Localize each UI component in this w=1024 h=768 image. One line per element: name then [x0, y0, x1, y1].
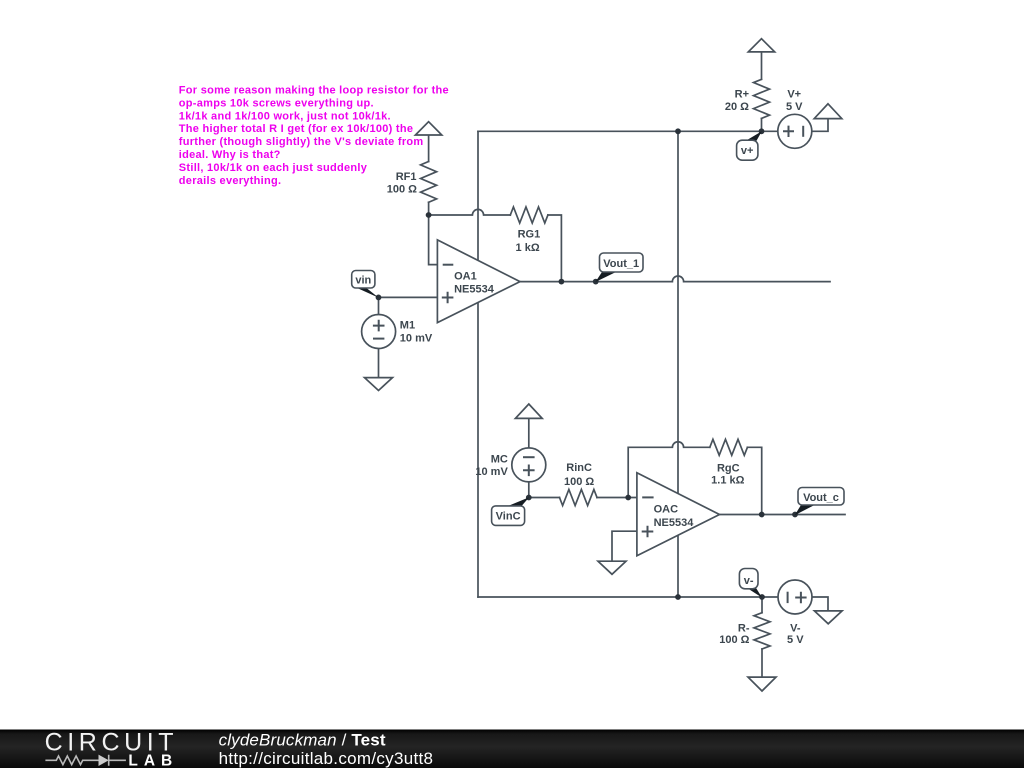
- junction OAC minus node: [625, 495, 631, 501]
- svg-text:VinC: VinC: [496, 511, 521, 523]
- OAC plus mark: [642, 526, 654, 538]
- wire R- top stem: [761, 597, 763, 613]
- node flag v+ box: [737, 140, 758, 160]
- wire feedback row y=215 with hop over x=478: [429, 209, 511, 215]
- svg-text:V+: V+: [787, 88, 801, 100]
- wire bottom rail y=597: [478, 596, 778, 598]
- vcc symbol right of V+: [814, 104, 842, 119]
- OA1 minus mark: [443, 264, 454, 266]
- wire left vertical rail x=478: [477, 131, 479, 597]
- svg-text:RF1: RF1: [396, 171, 417, 183]
- junction bottom rail / x=678 rail: [675, 594, 681, 600]
- junction Vout_c flag tap: [792, 512, 798, 518]
- source V- body: [778, 580, 812, 614]
- wire RF1 top stem: [428, 135, 430, 162]
- node flag pointer Vout_1: [595, 271, 617, 282]
- op-amp OA1 body: [437, 240, 520, 323]
- svg-text:ideal. Why is that?: ideal. Why is that?: [179, 149, 281, 161]
- OAC minus mark: [642, 496, 653, 498]
- resistor RgC: [710, 439, 748, 455]
- wire MC bottom stem: [528, 482, 530, 498]
- svg-text:RgC: RgC: [717, 462, 740, 474]
- svg-text:100 Ω: 100 Ω: [564, 476, 594, 488]
- resistor RinC: [560, 490, 598, 506]
- node flag pointer v-: [748, 588, 763, 597]
- resistor R+: [754, 79, 770, 118]
- wire MC top stem: [528, 418, 530, 448]
- svg-text:1.1 kΩ: 1.1 kΩ: [711, 475, 744, 487]
- node flag pointer vin: [356, 287, 379, 297]
- wire RgC right leg down to output: [747, 447, 761, 514]
- M1 plus mark: [373, 320, 385, 332]
- node flag pointer v+: [746, 131, 762, 141]
- node flag pointer VinC: [507, 497, 530, 506]
- op-amp OAC body: [637, 473, 720, 556]
- M1 minus mark: [373, 338, 384, 340]
- svg-text:For some reason making the loo: For some reason making the loop resistor…: [179, 85, 449, 97]
- svg-text:v+: v+: [741, 145, 754, 157]
- wire V+ to right vcc stub: [812, 119, 828, 132]
- svg-text:further (though slightly) the: further (though slightly) the V's deviat…: [179, 136, 424, 148]
- svg-text:1 kΩ: 1 kΩ: [516, 242, 540, 254]
- junction RF1/RG1/OA1 minus node: [426, 212, 432, 218]
- svg-text:1k/1k and 1k/100 work, just no: 1k/1k and 1k/100 work, just not 10k/1k.: [179, 110, 391, 122]
- logo resistor-diode squiggle: [45, 755, 126, 766]
- svg-text:5 V: 5 V: [787, 634, 804, 646]
- wire OA1 output row with hop over x=678: [520, 276, 830, 282]
- source M1 body: [362, 315, 396, 349]
- junction bottom rail / R- / V-: [759, 594, 765, 600]
- junction top rail / x=678 rail: [675, 128, 681, 134]
- wire OAC output row: [720, 514, 846, 516]
- junction top rail / R+ / V+: [759, 128, 765, 134]
- svg-text:op-amps 10k screws everything: op-amps 10k screws everything up.: [179, 97, 374, 109]
- wire RF1 bottom stem: [428, 202, 430, 215]
- OA1 plus mark: [442, 292, 454, 304]
- svg-text:100 Ω: 100 Ω: [719, 634, 749, 646]
- wire RG1 right leg down to output: [548, 215, 562, 282]
- vcc symbol above R+: [748, 39, 774, 52]
- ground below R-: [748, 677, 776, 691]
- junction Vout_1 flag tap: [593, 279, 599, 285]
- svg-text:V-: V-: [790, 622, 801, 634]
- footer bar: [0, 730, 1024, 768]
- MC plus mark: [523, 465, 535, 477]
- svg-text:10 mV: 10 mV: [475, 466, 508, 478]
- svg-text:The higher total R I get (for: The higher total R I get (for ex 10k/100…: [179, 123, 413, 135]
- node flag v- box: [739, 569, 758, 589]
- wire middle vertical rail x=678: [677, 131, 679, 597]
- svg-text:RG1: RG1: [518, 228, 541, 240]
- svg-text:MC: MC: [491, 453, 508, 465]
- wire OA1 non-inverting input: [379, 296, 438, 298]
- svg-text:Still, 10k/1k on each just sud: Still, 10k/1k on each just suddenly: [179, 162, 368, 174]
- wire RinC to OAC inverting input: [597, 497, 637, 499]
- junction RgC leg / output: [759, 512, 765, 518]
- ground below OAC non-inverting input: [598, 561, 626, 574]
- source MC body: [512, 448, 546, 482]
- wire M1 bottom stem: [378, 348, 380, 377]
- logo diode triangle: [99, 755, 109, 766]
- junction RG1 leg / output: [559, 279, 565, 285]
- svg-text:R-: R-: [738, 622, 750, 634]
- node flag vin box: [352, 271, 375, 289]
- vcc symbol above RF1: [415, 122, 441, 135]
- MC minus mark: [523, 456, 535, 458]
- svg-text:vin: vin: [355, 275, 371, 287]
- node flag Vout_1 box: [600, 253, 644, 272]
- wire V- to right ground stub: [812, 597, 828, 611]
- resistor RF1: [421, 162, 437, 203]
- ground right of V-: [814, 611, 842, 624]
- svg-text:Vout_c: Vout_c: [803, 492, 839, 504]
- source V+ body: [778, 114, 812, 148]
- svg-text:10 mV: 10 mV: [400, 332, 433, 344]
- svg-text:clydeBruckman / Test: clydeBruckman / Test: [219, 730, 386, 749]
- wire OA1 inverting input stub: [429, 215, 438, 265]
- V- plus mark: [795, 592, 806, 603]
- svg-text:derails everything.: derails everything.: [179, 175, 282, 187]
- wire top rail y=131: [478, 130, 778, 132]
- node flag pointer Vout_c: [795, 504, 816, 515]
- svg-text:OA1: OA1: [454, 271, 477, 283]
- resistor RG1: [510, 207, 548, 223]
- junction MC / RinC node: [526, 495, 532, 501]
- svg-text:OAC: OAC: [654, 504, 679, 516]
- resistor R-: [754, 613, 770, 649]
- V+ minus mark: [802, 126, 804, 137]
- V+ plus mark: [783, 126, 794, 137]
- node flag Vout_c box: [798, 488, 844, 506]
- svg-text:20 Ω: 20 Ω: [725, 101, 749, 113]
- svg-text:LAB: LAB: [128, 753, 178, 768]
- V- minus mark: [787, 592, 789, 603]
- node flag VinC box: [492, 506, 525, 526]
- svg-text:100 Ω: 100 Ω: [387, 183, 417, 195]
- ground below M1: [365, 378, 393, 391]
- svg-text:v-: v-: [744, 575, 754, 587]
- wire OAC feedback riser and row y=447.3 with hop over x=678: [628, 442, 710, 498]
- svg-text:RinC: RinC: [566, 462, 592, 474]
- svg-text:Vout_1: Vout_1: [603, 258, 639, 270]
- svg-text:R+: R+: [735, 88, 749, 100]
- svg-text:M1: M1: [400, 320, 415, 332]
- wire input row y=497.5: [529, 497, 560, 499]
- wire R+ bottom stem: [761, 118, 763, 131]
- wire M1 top stem: [378, 297, 380, 314]
- svg-text:5 V: 5 V: [786, 101, 803, 113]
- svg-text:NE5534: NE5534: [654, 517, 695, 529]
- wire R- bottom stem: [761, 649, 763, 677]
- vcc symbol above MC: [515, 404, 542, 418]
- wire OAC non-inverting input to ground: [612, 531, 637, 561]
- svg-text:NE5534: NE5534: [454, 284, 495, 296]
- junction vin node: [376, 295, 382, 301]
- annotation text block (magenta): [179, 85, 449, 187]
- wire R+ top stem: [761, 52, 763, 79]
- svg-text:http://circuitlab.com/cy3utt8: http://circuitlab.com/cy3utt8: [219, 749, 434, 768]
